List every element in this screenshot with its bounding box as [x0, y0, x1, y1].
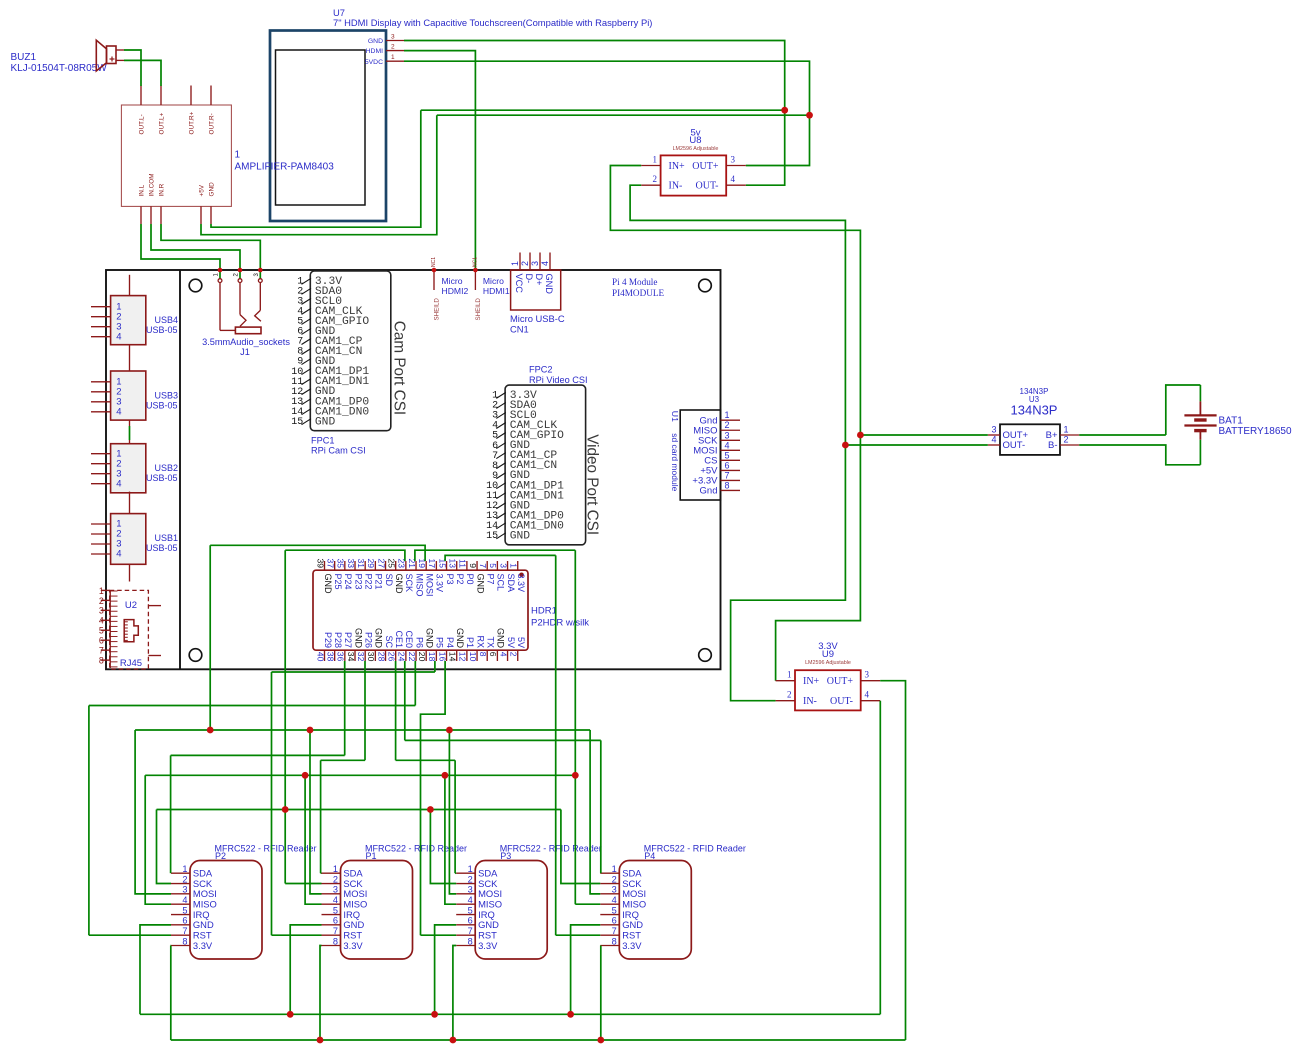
svg-text:15: 15 — [486, 531, 498, 542]
svg-text:7" HDMI Display with Capacitiv: 7" HDMI Display with Capacitive Touchscr… — [333, 17, 652, 28]
svg-text:4: 4 — [99, 616, 104, 626]
svg-text:HDMI2: HDMI2 — [442, 286, 469, 296]
svg-text:HDMI1: HDMI1 — [483, 286, 510, 296]
svg-text:U7: U7 — [333, 7, 345, 18]
svg-text:134N3P: 134N3P — [1011, 403, 1058, 418]
svg-text:2: 2 — [509, 652, 519, 657]
svg-text:6: 6 — [99, 636, 104, 646]
svg-text:GND: GND — [374, 628, 384, 649]
svg-text:3: 3 — [391, 33, 395, 40]
svg-text:TX: TX — [486, 636, 496, 648]
svg-text:CE0: CE0 — [404, 630, 414, 648]
svg-text:Micro: Micro — [442, 276, 463, 286]
svg-text:5V: 5V — [506, 637, 516, 648]
svg-text:P1: P1 — [366, 851, 377, 861]
svg-text:1: 1 — [653, 155, 658, 165]
svg-text:8: 8 — [725, 480, 730, 490]
svg-text:7: 7 — [478, 563, 488, 568]
svg-text:14: 14 — [448, 652, 458, 662]
svg-text:D-: D- — [524, 274, 534, 284]
svg-text:P7: P7 — [486, 574, 496, 585]
svg-text:5: 5 — [99, 626, 104, 636]
svg-text:Micro USB-C: Micro USB-C — [510, 313, 565, 324]
svg-text:2: 2 — [468, 874, 473, 884]
svg-text:3.3V: 3.3V — [193, 940, 213, 951]
svg-text:3: 3 — [182, 885, 187, 895]
svg-text:30: 30 — [366, 652, 376, 662]
svg-text:6: 6 — [468, 916, 473, 926]
svg-text:Cam Port CSI: Cam Port CSI — [390, 321, 407, 415]
svg-text:FPC1: FPC1 — [311, 436, 335, 446]
svg-text:P4: P4 — [644, 851, 655, 861]
svg-text:3: 3 — [612, 885, 617, 895]
svg-text:11: 11 — [458, 559, 468, 568]
svg-text:5: 5 — [488, 563, 498, 568]
svg-text:P21: P21 — [374, 574, 384, 590]
svg-text:2: 2 — [787, 690, 792, 700]
svg-text:IN.L: IN.L — [139, 184, 146, 196]
svg-text:HDR1: HDR1 — [531, 606, 557, 617]
svg-text:B-: B- — [1048, 440, 1058, 451]
svg-text:CE1: CE1 — [394, 630, 404, 648]
svg-text:J1: J1 — [240, 347, 250, 357]
svg-text:26: 26 — [386, 652, 396, 662]
svg-text:3: 3 — [99, 606, 104, 616]
svg-text:3.3V: 3.3V — [343, 940, 363, 951]
svg-text:8: 8 — [99, 656, 104, 666]
svg-text:29: 29 — [366, 558, 376, 568]
svg-text:GND: GND — [544, 274, 554, 295]
svg-text:U8: U8 — [689, 135, 701, 146]
svg-text:5V: 5V — [516, 637, 526, 648]
svg-text:31: 31 — [356, 558, 366, 568]
svg-text:2: 2 — [99, 596, 104, 606]
svg-text:4: 4 — [116, 406, 121, 417]
svg-text:SD: SD — [384, 574, 394, 587]
svg-text:RPi Video CSI: RPi Video CSI — [529, 375, 588, 385]
svg-text:7: 7 — [725, 470, 730, 480]
svg-text:GND: GND — [496, 628, 506, 649]
svg-text:37: 37 — [325, 558, 335, 568]
svg-text:BATTERY18650: BATTERY18650 — [1219, 426, 1292, 437]
svg-text:OUT+: OUT+ — [827, 676, 854, 687]
svg-text:1: 1 — [468, 864, 473, 874]
svg-text:OUT.L+: OUT.L+ — [159, 112, 166, 134]
svg-text:3: 3 — [498, 563, 508, 568]
svg-text:8: 8 — [468, 936, 473, 946]
svg-text:8: 8 — [612, 936, 617, 946]
svg-text:25: 25 — [386, 558, 396, 568]
svg-text:4: 4 — [725, 440, 730, 450]
svg-text:P5: P5 — [435, 637, 445, 648]
svg-text:IN+: IN+ — [803, 676, 820, 687]
svg-text:LM2596 Adjustable: LM2596 Adjustable — [673, 146, 719, 152]
svg-text:GND: GND — [394, 574, 404, 595]
svg-text:1: 1 — [612, 864, 617, 874]
svg-text:PI4MODULE: PI4MODULE — [612, 288, 664, 298]
svg-text:SCK: SCK — [404, 574, 414, 593]
svg-text:GND: GND — [315, 416, 336, 428]
svg-text:36: 36 — [336, 652, 346, 662]
svg-text:RPi Cam CSI: RPi Cam CSI — [311, 446, 366, 456]
svg-text:3: 3 — [530, 261, 540, 266]
svg-text:OUT.L-: OUT.L- — [139, 114, 146, 134]
svg-text:4: 4 — [182, 895, 187, 905]
svg-text:IN-: IN- — [669, 181, 683, 192]
svg-text:6: 6 — [725, 460, 730, 470]
svg-text:P26: P26 — [363, 632, 373, 648]
svg-text:P4: P4 — [445, 637, 455, 648]
svg-text:P2: P2 — [215, 851, 226, 861]
svg-text:39: 39 — [315, 558, 325, 568]
svg-text:4: 4 — [116, 331, 121, 342]
svg-text:LM2596 Adjustable: LM2596 Adjustable — [805, 660, 851, 666]
svg-text:34: 34 — [346, 652, 356, 662]
svg-text:Gnd: Gnd — [700, 486, 718, 497]
svg-text:P24: P24 — [343, 574, 353, 590]
svg-text:P29: P29 — [323, 632, 333, 648]
svg-text:OUT+: OUT+ — [692, 161, 719, 172]
svg-text:1: 1 — [235, 150, 241, 161]
svg-text:USB2: USB2 — [155, 463, 179, 473]
svg-text:1: 1 — [509, 563, 519, 568]
svg-text:13: 13 — [448, 558, 458, 568]
svg-text:OUT-: OUT- — [830, 696, 853, 707]
svg-text:P2: P2 — [455, 574, 465, 585]
svg-text:P25: P25 — [333, 574, 343, 590]
svg-text:16: 16 — [437, 652, 447, 662]
svg-text:4: 4 — [116, 549, 121, 560]
svg-text:NC1: NC1 — [431, 257, 437, 267]
svg-text:20: 20 — [417, 652, 427, 662]
svg-text:33: 33 — [346, 558, 356, 568]
svg-text:5: 5 — [333, 905, 338, 915]
svg-text:22: 22 — [407, 652, 417, 662]
svg-text:5: 5 — [468, 905, 473, 915]
svg-text:8: 8 — [478, 652, 488, 657]
svg-text:SC: SC — [384, 635, 394, 648]
svg-text:GND: GND — [510, 530, 531, 542]
svg-text:15: 15 — [291, 417, 303, 428]
svg-text:IN-: IN- — [803, 696, 817, 707]
svg-text:5VDC: 5VDC — [365, 59, 383, 66]
svg-text:OUT-: OUT- — [696, 181, 719, 192]
svg-text:7: 7 — [612, 926, 617, 936]
svg-text:4: 4 — [116, 478, 121, 489]
svg-text:GND: GND — [353, 628, 363, 649]
svg-text:3.5mmAudio_sockets: 3.5mmAudio_sockets — [202, 337, 290, 347]
svg-text:2: 2 — [520, 261, 530, 266]
svg-text:2: 2 — [653, 174, 658, 184]
svg-text:MISO: MISO — [414, 574, 424, 597]
svg-text:24: 24 — [397, 652, 407, 662]
svg-text:1: 1 — [391, 54, 395, 61]
svg-text:USB-05: USB-05 — [146, 325, 178, 335]
svg-text:18: 18 — [427, 652, 437, 662]
svg-text:4: 4 — [468, 895, 473, 905]
svg-text:9: 9 — [468, 563, 478, 568]
svg-text:10: 10 — [468, 652, 478, 662]
svg-text:3: 3 — [468, 885, 473, 895]
svg-text:2: 2 — [612, 874, 617, 884]
svg-text:4: 4 — [865, 690, 870, 700]
svg-text:RJ45: RJ45 — [120, 658, 142, 669]
svg-text:6: 6 — [612, 916, 617, 926]
svg-text:3.3V: 3.3V — [435, 574, 445, 593]
svg-text:32: 32 — [356, 652, 366, 662]
svg-text:7: 7 — [333, 926, 338, 936]
svg-text:2: 2 — [182, 874, 187, 884]
svg-text:P1: P1 — [465, 637, 475, 648]
svg-text:2: 2 — [333, 874, 338, 884]
svg-text:35: 35 — [336, 558, 346, 568]
svg-text:1: 1 — [725, 410, 730, 420]
svg-text:+5V: +5V — [199, 184, 206, 196]
svg-text:1: 1 — [99, 586, 104, 596]
svg-text:VCC: VCC — [514, 274, 524, 294]
svg-text:IN.COM: IN.COM — [149, 173, 156, 196]
svg-text:KLJ-01504T-08R05W: KLJ-01504T-08R05W — [11, 63, 108, 74]
svg-text:2: 2 — [1064, 435, 1069, 445]
svg-text:4: 4 — [333, 895, 338, 905]
svg-text:P2HDR w/silk: P2HDR w/silk — [531, 618, 589, 629]
svg-text:MFRC522 - RFID Reader: MFRC522 - RFID Reader — [365, 844, 467, 854]
svg-text:MFRC522 - RFID Reader: MFRC522 - RFID Reader — [500, 844, 602, 854]
svg-text:USB-05: USB-05 — [146, 473, 178, 483]
svg-text:GND: GND — [425, 628, 435, 649]
svg-text:17: 17 — [427, 558, 437, 568]
svg-text:5: 5 — [612, 905, 617, 915]
svg-text:3: 3 — [991, 425, 996, 435]
svg-text:3.3V: 3.3V — [516, 574, 526, 593]
svg-text:U9: U9 — [822, 649, 834, 660]
svg-text:RX: RX — [475, 635, 485, 648]
svg-text:MFRC522 - RFID Reader: MFRC522 - RFID Reader — [644, 844, 746, 854]
svg-text:BAT1: BAT1 — [1219, 415, 1244, 426]
svg-text:1: 1 — [1064, 425, 1069, 435]
svg-text:8: 8 — [182, 936, 187, 946]
svg-text:P0: P0 — [465, 574, 475, 585]
svg-text:7: 7 — [182, 926, 187, 936]
svg-text:3: 3 — [731, 155, 736, 165]
svg-text:3.3V: 3.3V — [622, 940, 642, 951]
svg-text:MFRC522 - RFID Reader: MFRC522 - RFID Reader — [215, 844, 317, 854]
svg-text:P27: P27 — [343, 632, 353, 648]
svg-text:P6: P6 — [414, 637, 424, 648]
svg-text:HDMI: HDMI — [366, 48, 383, 55]
svg-text:1: 1 — [182, 864, 187, 874]
svg-text:IN+: IN+ — [669, 161, 686, 172]
svg-text:GND: GND — [209, 182, 216, 197]
svg-text:USB-05: USB-05 — [146, 543, 178, 553]
svg-text:U2: U2 — [125, 600, 137, 611]
svg-text:8: 8 — [333, 936, 338, 946]
svg-text:AMPLIFIER-PAM8403: AMPLIFIER-PAM8403 — [235, 162, 335, 173]
svg-text:6: 6 — [182, 916, 187, 926]
svg-text:4: 4 — [612, 895, 617, 905]
svg-text:OUT-: OUT- — [1003, 440, 1026, 451]
svg-text:U1: U1 — [670, 411, 680, 422]
svg-text:Video Port CSI: Video Port CSI — [584, 434, 601, 535]
svg-text:MOSI: MOSI — [425, 574, 435, 597]
svg-text:1: 1 — [787, 670, 792, 680]
svg-text:P28: P28 — [333, 632, 343, 648]
svg-text:USB1: USB1 — [155, 533, 179, 543]
svg-text:NC1: NC1 — [473, 257, 479, 267]
svg-text:3: 3 — [865, 670, 870, 680]
svg-text:38: 38 — [325, 652, 335, 662]
svg-text:FPC2: FPC2 — [529, 365, 553, 375]
svg-text:GND: GND — [475, 574, 485, 595]
svg-text:GND: GND — [368, 38, 383, 45]
svg-text:4: 4 — [498, 652, 508, 657]
svg-text:4: 4 — [991, 435, 996, 445]
svg-text:Pi 4 Module: Pi 4 Module — [612, 277, 657, 287]
svg-text:USB-05: USB-05 — [146, 400, 178, 410]
svg-text:P23: P23 — [353, 574, 363, 590]
svg-text:2: 2 — [725, 420, 730, 430]
svg-text:OUT.R+: OUT.R+ — [189, 111, 196, 134]
svg-text:3.3V: 3.3V — [478, 940, 498, 951]
svg-text:SHEILD: SHEILD — [475, 298, 482, 321]
svg-text:5: 5 — [182, 905, 187, 915]
svg-text:P3: P3 — [500, 851, 511, 861]
svg-text:OUT.R-: OUT.R- — [209, 113, 216, 134]
svg-text:4: 4 — [731, 174, 736, 184]
svg-text:sd card module: sd card module — [670, 433, 680, 491]
svg-text:3: 3 — [725, 430, 730, 440]
svg-text:1: 1 — [333, 864, 338, 874]
svg-text:SDA: SDA — [506, 574, 516, 593]
svg-text:6: 6 — [333, 916, 338, 926]
svg-text:D+: D+ — [534, 274, 544, 286]
svg-text:IN.R: IN.R — [159, 183, 166, 196]
svg-text:CN1: CN1 — [510, 324, 529, 335]
svg-text:USB4: USB4 — [155, 315, 179, 325]
svg-text:5: 5 — [725, 450, 730, 460]
svg-text:P3: P3 — [445, 574, 455, 585]
svg-text:SCL: SCL — [496, 574, 506, 592]
svg-text:7: 7 — [468, 926, 473, 936]
svg-text:1: 1 — [510, 261, 520, 266]
svg-text:GND: GND — [323, 574, 333, 595]
svg-text:12: 12 — [458, 652, 468, 662]
svg-text:2: 2 — [391, 43, 395, 50]
svg-text:USB3: USB3 — [155, 390, 179, 400]
svg-text:GND: GND — [455, 628, 465, 649]
svg-text:27: 27 — [376, 558, 386, 568]
svg-text:4: 4 — [540, 261, 550, 266]
svg-text:7: 7 — [99, 646, 104, 656]
svg-text:40: 40 — [315, 652, 325, 662]
svg-text:P22: P22 — [363, 574, 373, 590]
svg-text:6: 6 — [488, 652, 498, 657]
svg-text:SHEILD: SHEILD — [434, 298, 441, 321]
svg-text:BUZ1: BUZ1 — [11, 52, 37, 63]
svg-text:3: 3 — [333, 885, 338, 895]
svg-text:Micro: Micro — [483, 276, 504, 286]
svg-text:28: 28 — [376, 652, 386, 662]
